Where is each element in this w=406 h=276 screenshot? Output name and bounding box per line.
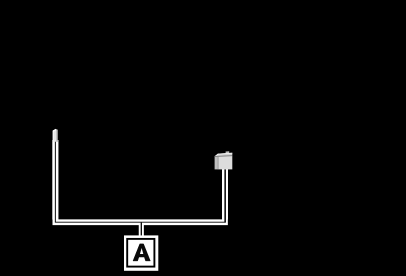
letter A glyph — [133, 244, 150, 261]
wire right vertical overlay — [222, 168, 228, 220]
wire core shadow horizontal segment — [55, 221, 226, 223]
wire stub to box A — [139, 222, 144, 237]
wire main run (left lead down, across, up to right connector) — [55, 140, 225, 222]
wire core shadow right vertical segment — [224, 168, 226, 223]
noise suppressor connector block (right) — [215, 151, 233, 169]
component box A — [124, 235, 158, 270]
connector terminal pin (top left lead tip) — [53, 129, 58, 142]
wire left vertical overlay — [52, 140, 58, 220]
wire core shadow left vertical segment — [54, 141, 56, 222]
wire core shadow stub segment — [140, 223, 142, 236]
